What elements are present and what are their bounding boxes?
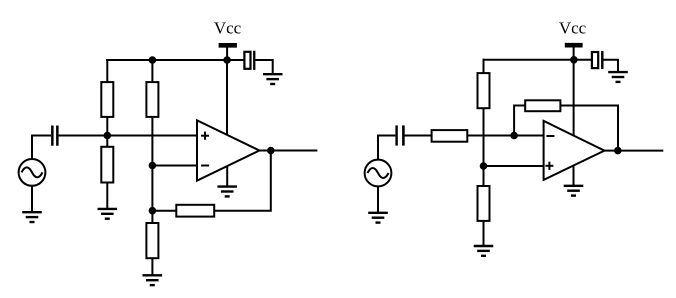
- svg-text:Vcc: Vcc: [559, 19, 587, 38]
- svg-text:Vcc: Vcc: [214, 19, 242, 38]
